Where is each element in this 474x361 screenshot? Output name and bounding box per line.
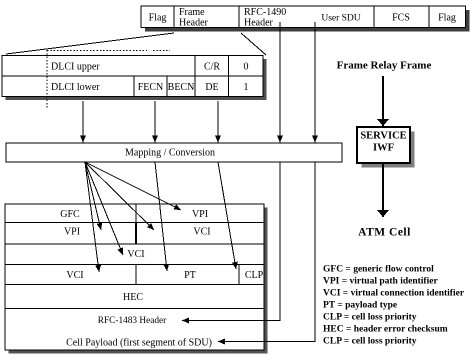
bent arrow into RFC-1483 header row [182,162,280,321]
slant line to CLP [218,162,236,269]
dotted horizontal guide [47,50,147,52]
svg-text:C/R: C/R [204,62,220,73]
fan ray to VPI row2 [85,162,101,230]
svg-text:DE: DE [205,82,218,93]
DLCI detail box [2,56,267,101]
arrow DLCI to mapping 3 [217,101,219,143]
long arrow from User SDU to mapping [314,22,316,143]
svg-text:VCI: VCI [66,270,83,281]
svg-text:RFC-1490: RFC-1490 [244,7,286,18]
svg-text:Flag: Flag [438,13,456,24]
long arrow from RFC-1490 header to mapping [279,22,281,143]
svg-text:DLCI lower: DLCI lower [51,82,100,93]
service IWF box [357,127,415,168]
fan ray to VPI row1 [85,162,181,210]
svg-text:CLP = cell loss priority: CLP = cell loss priority [323,313,417,323]
svg-text:IWF: IWF [373,143,394,154]
svg-text:PT = payload type: PT = payload type [323,301,397,311]
svg-text:GFC: GFC [60,209,80,220]
svg-text:VCI = virtual connection ident: VCI = virtual connection identifier [323,289,465,299]
svg-text:Header: Header [179,18,209,29]
svg-text:BECN: BECN [168,82,195,93]
svg-text:FCS: FCS [392,13,410,24]
fan ray to VCI row4 [85,162,99,272]
arrow frame relay frame to service iwf [382,76,384,126]
top frame-relay frame bar [141,6,470,32]
svg-text:0: 0 [244,62,249,73]
svg-text:User SDU: User SDU [321,14,360,24]
svg-text:VPI = virtual path identifier: VPI = virtual path identifier [323,277,438,287]
arrow DLCI to mapping 1 [82,101,84,143]
svg-text:VCI: VCI [193,227,210,238]
fan ray to VCI row3 [85,162,123,255]
svg-text:VPI: VPI [64,227,80,238]
svg-text:Frame Relay Frame: Frame Relay Frame [337,60,432,72]
expansion diagonal right [241,33,266,55]
svg-text:CLP = cell loss priority: CLP = cell loss priority [323,337,417,347]
arrow DLCI to mapping 2 [154,101,156,143]
svg-text:HEC: HEC [123,292,143,303]
svg-text:PT: PT [184,270,196,281]
svg-text:HEC = header error checksum: HEC = header error checksum [323,325,448,335]
svg-text:1: 1 [244,82,249,93]
svg-text:CLP: CLP [245,270,264,281]
svg-text:GFC = generic flow control: GFC = generic flow control [323,265,434,275]
svg-text:RFC-1483 Header: RFC-1483 Header [98,316,167,326]
mapping / conversion bar [6,143,342,162]
bent arrow into cell payload row [218,162,315,342]
svg-text:Flag: Flag [149,13,167,24]
svg-text:VCI: VCI [127,249,144,260]
expansion diagonal left [6,33,174,54]
svg-text:Mapping / Conversion: Mapping / Conversion [125,148,215,159]
svg-text:FECN: FECN [138,82,164,93]
arrow service iwf to ATM cell [382,164,384,217]
svg-text:SERVICE: SERVICE [360,131,406,142]
svg-text:Header: Header [244,18,274,29]
fan ray to VCI row2 [85,162,154,230]
svg-text:Cell Payload (first segment of: Cell Payload (first segment of SDU) [66,338,212,349]
ATM cell rows block [5,204,268,354]
svg-text:VPI: VPI [192,209,208,220]
svg-text:ATM Cell: ATM Cell [358,227,411,239]
svg-text:Frame: Frame [179,7,205,18]
svg-text:DLCI upper: DLCI upper [51,62,100,73]
slant line to PT [155,162,167,271]
dotted vertical guide [46,50,48,108]
legend [323,265,465,347]
